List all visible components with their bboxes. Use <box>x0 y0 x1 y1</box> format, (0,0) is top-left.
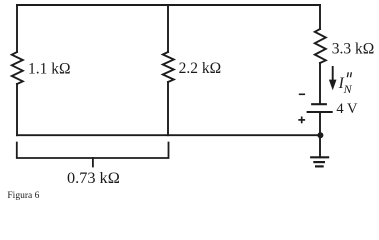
bracket for 0.73 kOhm <box>17 143 169 167</box>
wire left-branch bottom <box>16 84 18 135</box>
wire middle-branch bottom <box>167 82 169 135</box>
wire resistor to battery <box>319 63 321 103</box>
battery V1 plate long (positive, bottom) <box>307 111 333 113</box>
resistor R1 zigzag <box>12 52 23 84</box>
label current IN'' <box>338 72 353 96</box>
battery V1 plate short (negative, top) <box>311 103 327 105</box>
node junction dot <box>317 132 323 138</box>
wire top <box>17 4 320 6</box>
resistor R3 zigzag <box>315 29 326 63</box>
svg-text:3.3 kΩ: 3.3 kΩ <box>332 41 375 58</box>
svg-text:Figura 6: Figura 6 <box>7 191 39 201</box>
current arrow IN <box>329 66 337 90</box>
svg-text:4 V: 4 V <box>336 101 358 117</box>
svg-text:2.2 kΩ: 2.2 kΩ <box>179 60 222 77</box>
wire bottom <box>17 134 321 136</box>
svg-text:N: N <box>343 82 353 96</box>
svg-text:0.73 kΩ: 0.73 kΩ <box>67 168 120 187</box>
ground <box>310 157 329 166</box>
svg-text:1.1 kΩ: 1.1 kΩ <box>28 61 71 78</box>
wire battery to ground <box>319 112 321 157</box>
wire middle-branch top <box>167 5 169 52</box>
battery plus sign <box>298 117 305 124</box>
wire left-branch top <box>16 5 18 52</box>
resistor R2 zigzag <box>163 52 174 82</box>
wire right-branch top <box>319 5 321 29</box>
battery minus sign <box>299 93 305 95</box>
